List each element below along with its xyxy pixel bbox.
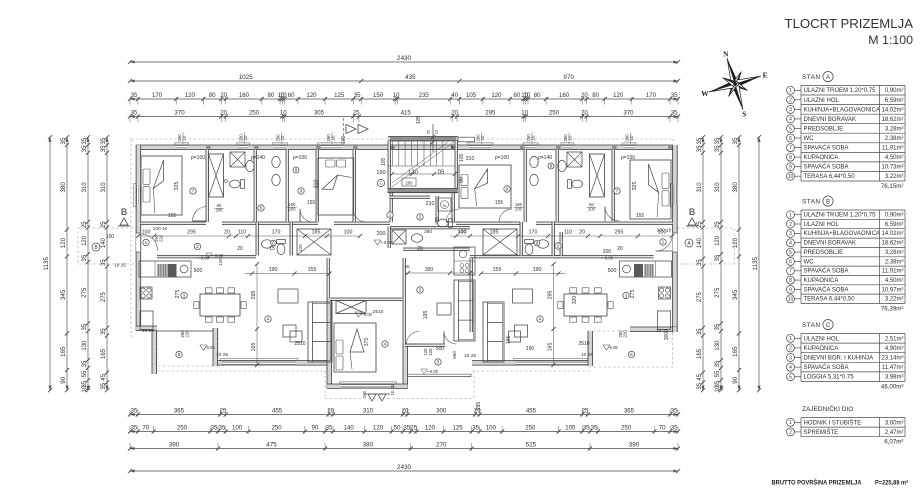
svg-text:6: 6 — [789, 259, 792, 265]
svg-text:170: 170 — [272, 230, 281, 236]
svg-text:20: 20 — [579, 230, 585, 236]
svg-text:18,62m²: 18,62m² — [881, 117, 903, 123]
svg-text:8: 8 — [295, 168, 298, 174]
svg-text:55: 55 — [82, 370, 88, 377]
svg-text:KUHINJA+BLAGOVAONICA: KUHINJA+BLAGOVAONICA — [804, 231, 880, 237]
svg-text:155: 155 — [307, 200, 316, 206]
svg-text:3: 3 — [789, 231, 792, 237]
svg-text:35: 35 — [82, 145, 88, 152]
svg-text:165: 165 — [251, 343, 257, 352]
svg-text:25: 25 — [715, 221, 721, 228]
svg-text:p=100: p=100 — [495, 155, 509, 161]
svg-text:455: 455 — [526, 408, 537, 415]
svg-text:11,47m²: 11,47m² — [882, 365, 904, 371]
svg-text:PREDSOBLJE: PREDSOBLJE — [804, 250, 844, 256]
svg-text:2510: 2510 — [373, 309, 384, 315]
svg-text:p=100: p=100 — [293, 155, 307, 161]
svg-text:250: 250 — [621, 425, 632, 432]
svg-text:150: 150 — [373, 92, 384, 99]
svg-text:100: 100 — [232, 425, 243, 432]
svg-text:+-0,00: +-0,00 — [426, 369, 439, 374]
svg-text:p=140: p=140 — [538, 155, 552, 161]
svg-text:105: 105 — [381, 158, 387, 167]
svg-text:S: S — [742, 110, 746, 119]
svg-text:10: 10 — [715, 385, 721, 392]
svg-text:05: 05 — [438, 170, 445, 176]
svg-text:370: 370 — [364, 338, 370, 347]
svg-text:25: 25 — [353, 110, 360, 117]
svg-text:TERASA 6,44*0,50: TERASA 6,44*0,50 — [804, 297, 856, 303]
svg-text:500: 500 — [194, 268, 203, 274]
svg-text:M 1:100: M 1:100 — [868, 33, 913, 47]
svg-text:HODNIK I STUBIŠTE: HODNIK I STUBIŠTE — [804, 419, 862, 426]
svg-text:TLOCRT PRIZEMLJA: TLOCRT PRIZEMLJA — [785, 16, 914, 31]
svg-text:p=140: p=140 — [251, 155, 265, 161]
svg-text:KUHINJA+BLAGOVAONICA: KUHINJA+BLAGOVAONICA — [804, 107, 880, 113]
svg-text:250: 250 — [177, 425, 188, 432]
svg-text:105: 105 — [459, 154, 465, 163]
svg-text:120: 120 — [715, 235, 721, 246]
svg-text:200: 200 — [406, 181, 414, 186]
svg-text:35: 35 — [131, 110, 138, 117]
svg-text:80: 80 — [209, 92, 216, 99]
svg-text:5: 5 — [789, 126, 792, 132]
svg-text:295: 295 — [251, 291, 257, 300]
svg-text:310: 310 — [363, 408, 374, 415]
svg-text:140: 140 — [344, 425, 355, 432]
svg-text:380: 380 — [60, 182, 67, 193]
svg-text:25: 25 — [101, 221, 107, 228]
svg-text:320: 320 — [572, 296, 578, 305]
svg-text:275: 275 — [697, 291, 703, 302]
svg-text:120: 120 — [82, 235, 88, 246]
svg-text:170: 170 — [152, 92, 163, 99]
svg-text:300: 300 — [664, 332, 670, 341]
svg-text:370: 370 — [175, 110, 186, 117]
svg-text:160: 160 — [239, 92, 250, 99]
svg-text:2: 2 — [789, 346, 792, 352]
svg-text:250: 250 — [272, 425, 283, 432]
svg-text:5: 5 — [437, 360, 440, 366]
svg-text:185: 185 — [312, 230, 321, 236]
svg-text:35: 35 — [697, 137, 703, 144]
svg-text:10: 10 — [280, 135, 285, 140]
svg-text:155: 155 — [308, 267, 317, 273]
svg-text:130: 130 — [715, 340, 721, 351]
svg-text:35: 35 — [715, 145, 721, 152]
svg-text:SPAVAĆA SOBA: SPAVAĆA SOBA — [804, 145, 849, 152]
svg-text:35: 35 — [101, 259, 107, 266]
svg-text:25: 25 — [426, 129, 431, 134]
svg-text:9: 9 — [506, 187, 509, 193]
svg-text:130: 130 — [82, 340, 88, 351]
svg-text:100: 100 — [458, 229, 466, 235]
svg-text:46,00m²: 46,00m² — [881, 384, 904, 391]
svg-text:PREDSOBLJE: PREDSOBLJE — [804, 126, 844, 132]
svg-text:100: 100 — [486, 425, 497, 432]
svg-text:100: 100 — [106, 234, 115, 240]
svg-text:165: 165 — [60, 346, 67, 357]
svg-text:45: 45 — [101, 373, 107, 380]
svg-text:60: 60 — [513, 92, 520, 99]
svg-text:295: 295 — [485, 110, 496, 117]
svg-text:275: 275 — [630, 290, 636, 299]
svg-text:1: 1 — [789, 213, 792, 219]
svg-text:270: 270 — [436, 442, 447, 449]
svg-text:25: 25 — [82, 221, 88, 228]
svg-text:20: 20 — [327, 408, 334, 415]
svg-text:N: N — [723, 50, 729, 59]
svg-text:475: 475 — [266, 442, 277, 449]
svg-text:295: 295 — [476, 402, 482, 411]
svg-text:8: 8 — [550, 164, 553, 170]
svg-text:90: 90 — [732, 376, 739, 384]
svg-text:6: 6 — [789, 136, 792, 142]
svg-text:BRUTTO POVRŠINA PRIZEMLJA: BRUTTO POVRŠINA PRIZEMLJA — [772, 478, 862, 487]
svg-text:10 25: 10 25 — [142, 328, 154, 334]
svg-text:+-0,00: +-0,00 — [360, 312, 373, 317]
svg-text:200: 200 — [603, 249, 612, 255]
svg-text:35: 35 — [472, 425, 479, 432]
svg-text:20: 20 — [402, 408, 409, 415]
svg-text:7: 7 — [192, 189, 195, 195]
svg-text:190: 190 — [269, 267, 278, 273]
svg-text:170: 170 — [529, 230, 538, 236]
svg-text:35: 35 — [671, 110, 678, 117]
svg-text:125: 125 — [334, 92, 345, 99]
svg-text:35: 35 — [697, 145, 703, 152]
svg-text:p=100: p=100 — [621, 155, 635, 161]
svg-text:5: 5 — [260, 206, 263, 212]
svg-text:SPAVAĆA SOBA: SPAVAĆA SOBA — [804, 164, 849, 171]
svg-text:15: 15 — [269, 246, 275, 252]
svg-text:1: 1 — [789, 336, 792, 342]
svg-text:220: 220 — [185, 330, 190, 338]
svg-text:305: 305 — [314, 110, 325, 117]
svg-text:310: 310 — [715, 182, 721, 193]
svg-text:4: 4 — [267, 317, 270, 323]
svg-text:ULAZNI HOL: ULAZNI HOL — [804, 336, 840, 342]
svg-text:7: 7 — [616, 189, 619, 195]
svg-text:280: 280 — [424, 229, 432, 235]
svg-text:120: 120 — [185, 92, 196, 99]
svg-text:45: 45 — [697, 373, 703, 380]
svg-text:35: 35 — [671, 92, 678, 99]
svg-text:35: 35 — [82, 360, 88, 367]
svg-text:105: 105 — [341, 136, 347, 145]
svg-text:390: 390 — [169, 442, 180, 449]
svg-text:DNEVNI BOR. I KUHINJA: DNEVNI BOR. I KUHINJA — [804, 356, 874, 362]
svg-text:ULAZNI HOL: ULAZNI HOL — [804, 98, 840, 104]
svg-text:165: 165 — [506, 336, 512, 345]
svg-text:10: 10 — [393, 92, 400, 99]
svg-text:35: 35 — [101, 328, 107, 335]
svg-text:1135: 1135 — [752, 256, 759, 270]
svg-text:WC: WC — [804, 136, 815, 142]
svg-text:10: 10 — [182, 135, 187, 140]
svg-text:10,73m²: 10,73m² — [881, 165, 903, 171]
svg-text:+-0,00: +-0,00 — [380, 240, 393, 245]
svg-text:6: 6 — [178, 352, 181, 358]
svg-text:105: 105 — [466, 92, 477, 99]
svg-text:345: 345 — [60, 289, 67, 300]
svg-text:4: 4 — [789, 365, 792, 371]
svg-text:300: 300 — [425, 267, 434, 273]
svg-text:35: 35 — [219, 425, 226, 432]
svg-text:10: 10 — [629, 135, 634, 140]
svg-text:435: 435 — [405, 74, 416, 81]
svg-text:ULAZNI TRIJEM 1,20*0,75: ULAZNI TRIJEM 1,20*0,75 — [804, 213, 877, 219]
svg-text:120: 120 — [60, 237, 67, 248]
svg-text:14,02m²: 14,02m² — [881, 231, 903, 237]
svg-text:190: 190 — [526, 346, 535, 352]
svg-text:500: 500 — [608, 268, 617, 274]
svg-text:90: 90 — [60, 376, 67, 384]
svg-text:+-0,00: +-0,00 — [197, 256, 210, 261]
svg-text:35: 35 — [732, 137, 739, 145]
svg-text:W: W — [701, 89, 709, 98]
svg-text:A: A — [826, 75, 830, 81]
svg-text:415: 415 — [401, 110, 412, 117]
svg-text:10: 10 — [788, 174, 794, 180]
svg-text:25: 25 — [582, 408, 589, 415]
svg-text:ULAZNI TRIJEM 1,20*0,75: ULAZNI TRIJEM 1,20*0,75 — [804, 88, 877, 94]
svg-text:35: 35 — [715, 137, 721, 144]
svg-text:325: 325 — [632, 182, 638, 191]
svg-text:390: 390 — [629, 442, 640, 449]
svg-text:2: 2 — [789, 222, 792, 228]
svg-text:165: 165 — [732, 346, 739, 357]
svg-text:76,39m²: 76,39m² — [881, 306, 904, 313]
svg-text:3,98m²: 3,98m² — [885, 375, 904, 381]
svg-text:1: 1 — [662, 240, 665, 246]
svg-text:310: 310 — [314, 180, 320, 189]
svg-text:110: 110 — [564, 230, 572, 236]
svg-text:STAN: STAN — [802, 199, 820, 206]
svg-text:35: 35 — [697, 259, 703, 266]
svg-text:10: 10 — [280, 92, 287, 99]
svg-text:50: 50 — [394, 425, 401, 432]
svg-text:120: 120 — [218, 258, 223, 266]
svg-text:2,51m²: 2,51m² — [885, 336, 904, 342]
svg-text:6: 6 — [536, 241, 539, 247]
svg-text:2: 2 — [419, 215, 422, 221]
svg-text:295: 295 — [187, 230, 196, 236]
svg-text:11,91m²: 11,91m² — [882, 269, 904, 275]
svg-text:370: 370 — [623, 110, 634, 117]
svg-text:7: 7 — [789, 145, 792, 151]
svg-text:120: 120 — [298, 244, 303, 252]
svg-text:90: 90 — [459, 177, 465, 183]
svg-text:0,90m²: 0,90m² — [885, 88, 904, 94]
svg-text:KUPAONICA: KUPAONICA — [804, 278, 839, 284]
svg-text:220: 220 — [159, 234, 164, 242]
svg-text:35: 35 — [101, 382, 107, 389]
svg-text:1135: 1135 — [43, 256, 50, 270]
svg-text:275: 275 — [82, 287, 88, 298]
svg-text:14,02m²: 14,02m² — [881, 107, 903, 113]
svg-text:6,07m²: 6,07m² — [884, 439, 903, 446]
svg-text:35: 35 — [591, 425, 598, 432]
svg-text:20: 20 — [220, 110, 227, 117]
svg-text:275: 275 — [715, 287, 721, 298]
svg-text:40: 40 — [451, 92, 458, 99]
svg-text:500: 500 — [436, 346, 445, 352]
svg-text:35: 35 — [697, 382, 703, 389]
svg-text:380: 380 — [363, 442, 374, 449]
svg-text:3,28m²: 3,28m² — [885, 126, 904, 132]
svg-text:SPAVAĆA SOBA: SPAVAĆA SOBA — [804, 268, 849, 275]
svg-text:35: 35 — [715, 360, 721, 367]
svg-text:35: 35 — [697, 328, 703, 335]
svg-text:105: 105 — [565, 425, 576, 432]
svg-text:3: 3 — [789, 107, 792, 113]
svg-text:110: 110 — [238, 230, 246, 236]
svg-text:3: 3 — [625, 293, 628, 299]
svg-text:5: 5 — [789, 250, 792, 256]
svg-text:SPREMIŠTE: SPREMIŠTE — [804, 429, 839, 436]
svg-text:160: 160 — [559, 92, 570, 99]
svg-text:9: 9 — [789, 165, 792, 171]
svg-text:4,90m²: 4,90m² — [885, 346, 904, 352]
svg-text:2: 2 — [789, 98, 792, 104]
svg-text:185: 185 — [490, 230, 499, 236]
svg-text:20: 20 — [451, 110, 458, 117]
svg-text:35: 35 — [82, 323, 88, 330]
svg-text:P=225,88 m²: P=225,88 m² — [875, 480, 908, 487]
svg-text:190: 190 — [533, 267, 542, 273]
svg-text:9: 9 — [300, 189, 303, 195]
svg-text:-0,05: -0,05 — [608, 345, 618, 350]
svg-text:120: 120 — [491, 92, 502, 99]
svg-text:4,50m²: 4,50m² — [885, 155, 904, 161]
svg-text:B: B — [826, 200, 830, 206]
svg-text:-0,05: -0,05 — [205, 345, 215, 350]
svg-text:300: 300 — [436, 408, 447, 415]
svg-text:235: 235 — [419, 92, 430, 99]
svg-text:35: 35 — [211, 425, 218, 432]
svg-text:35: 35 — [354, 92, 361, 99]
svg-text:35: 35 — [131, 408, 138, 415]
svg-text:10: 10 — [531, 135, 536, 140]
svg-text:165: 165 — [548, 343, 554, 352]
svg-text:250: 250 — [362, 390, 367, 398]
svg-text:20: 20 — [417, 246, 423, 252]
svg-text:25: 25 — [410, 425, 417, 432]
svg-text:2,38m²: 2,38m² — [885, 136, 904, 142]
svg-text:3: 3 — [183, 293, 186, 299]
svg-text:100 10: 100 10 — [657, 228, 672, 234]
svg-text:3,22m²: 3,22m² — [885, 174, 904, 180]
svg-text:4: 4 — [789, 241, 792, 247]
svg-text:100: 100 — [142, 230, 151, 236]
svg-text:8: 8 — [789, 278, 792, 284]
svg-text:LOGGIA 5,31*0,75: LOGGIA 5,31*0,75 — [804, 375, 855, 381]
svg-text:125: 125 — [453, 425, 464, 432]
svg-text:35: 35 — [671, 408, 678, 415]
svg-text:35: 35 — [671, 425, 678, 432]
svg-text:100: 100 — [344, 230, 353, 236]
svg-text:25: 25 — [220, 408, 227, 415]
svg-text:310: 310 — [697, 182, 703, 193]
svg-text:10: 10 — [480, 135, 485, 140]
svg-text:35: 35 — [715, 254, 721, 261]
svg-text:250: 250 — [549, 110, 560, 117]
svg-text:105: 105 — [416, 116, 422, 125]
svg-text:2: 2 — [196, 244, 199, 250]
svg-text:970: 970 — [563, 74, 574, 81]
svg-text:2,47m²: 2,47m² — [885, 430, 904, 436]
svg-text:455: 455 — [272, 408, 283, 415]
svg-text:90: 90 — [312, 425, 319, 432]
svg-text:4: 4 — [539, 317, 542, 323]
svg-text:ZAJEDNIČKI DIO: ZAJEDNIČKI DIO — [802, 404, 853, 413]
svg-text:35: 35 — [583, 425, 590, 432]
svg-text:+-0,00: +-0,00 — [211, 253, 224, 258]
svg-text:210: 210 — [426, 201, 435, 207]
svg-text:TERASA 6,44*0,50: TERASA 6,44*0,50 — [804, 174, 856, 180]
svg-text:10: 10 — [280, 110, 287, 117]
svg-text:SPAVAĆA SOBA: SPAVAĆA SOBA — [804, 286, 849, 293]
svg-text:165: 165 — [101, 348, 107, 359]
svg-text:35: 35 — [326, 425, 333, 432]
svg-text:10: 10 — [434, 129, 439, 134]
svg-text:20: 20 — [404, 264, 410, 269]
svg-text:170: 170 — [646, 92, 657, 99]
svg-text:STAN: STAN — [802, 74, 820, 81]
svg-text:20: 20 — [617, 246, 623, 252]
svg-text:5: 5 — [789, 375, 792, 381]
svg-text:275: 275 — [175, 290, 181, 299]
svg-text:10: 10 — [788, 297, 794, 303]
svg-text:DNEVNI BORAVAK: DNEVNI BORAVAK — [804, 241, 856, 247]
svg-text:35: 35 — [715, 323, 721, 330]
svg-text:2510: 2510 — [578, 341, 589, 347]
svg-text:80: 80 — [268, 92, 275, 99]
svg-text:35: 35 — [101, 145, 107, 152]
svg-text:10 25: 10 25 — [464, 353, 476, 359]
svg-text:35: 35 — [131, 92, 138, 99]
svg-text:20: 20 — [224, 230, 230, 236]
svg-text:80: 80 — [592, 92, 599, 99]
svg-text:10: 10 — [331, 135, 336, 140]
svg-text:10 25: 10 25 — [581, 352, 593, 358]
svg-text:2430: 2430 — [397, 464, 412, 471]
svg-text:150: 150 — [376, 170, 385, 176]
svg-text:10 25: 10 25 — [114, 263, 126, 268]
svg-text:4,50m²: 4,50m² — [885, 278, 904, 284]
svg-text:155: 155 — [493, 267, 502, 273]
svg-text:11,91m²: 11,91m² — [882, 146, 904, 152]
svg-text:10,97m²: 10,97m² — [881, 287, 903, 293]
svg-text:275: 275 — [101, 291, 107, 302]
svg-text:25: 25 — [697, 221, 703, 228]
svg-text:155: 155 — [495, 200, 504, 206]
svg-text:C: C — [826, 323, 831, 329]
svg-text:1: 1 — [145, 240, 148, 246]
svg-text:STAN: STAN — [802, 322, 820, 329]
svg-text:p=100: p=100 — [191, 155, 205, 161]
svg-text:1: 1 — [789, 420, 792, 426]
svg-text:220: 220 — [623, 330, 628, 338]
svg-text:1025: 1025 — [239, 74, 254, 81]
svg-text:6,59m²: 6,59m² — [885, 98, 904, 104]
svg-text:220: 220 — [428, 348, 433, 356]
svg-text:100 10: 100 10 — [153, 226, 168, 232]
svg-text:35: 35 — [60, 137, 67, 145]
svg-text:60: 60 — [288, 92, 295, 99]
svg-text:20: 20 — [237, 246, 243, 252]
